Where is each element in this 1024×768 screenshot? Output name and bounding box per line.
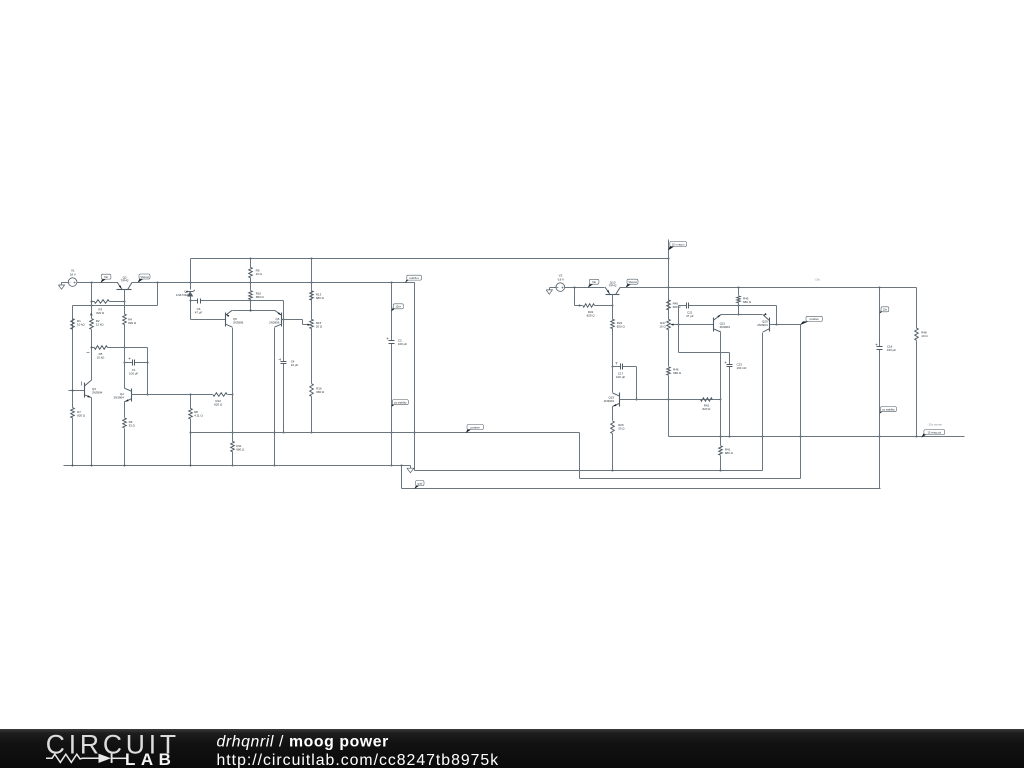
svg-text:out15v+: out15v+ [409,276,419,280]
wire right column down [414,283,416,471]
svg-text:http://circuitlab.com/cc8247tb: http://circuitlab.com/cc8247tb8975k [217,752,500,768]
ground (V1) [62,282,69,284]
wire Q20 base to positive [770,324,801,326]
capacitor C18 100uF [877,346,883,348]
node 15 v neg in flag [668,240,670,259]
wire column x668 to out row [668,400,670,437]
diff pair tail wire [233,310,275,312]
svg-text:15v: 15v [883,308,888,312]
zener diode D1 1N4733A column [190,259,192,290]
svg-text:680 Ω: 680 Ω [725,451,734,455]
resistor R10 680 [250,283,252,291]
column x283 (C4) [283,301,285,362]
svg-text:820 Ω: 820 Ω [587,314,596,318]
svg-text:820 Ω: 820 Ω [214,402,223,406]
svg-text:-15v sense: -15v sense [927,422,942,426]
node 15 vneg out flag [922,434,927,438]
svg-text:820 Ω: 820 Ω [96,311,105,315]
svg-text:33 Ω: 33 Ω [129,424,136,428]
svg-text:4.11 Ω: 4.11 Ω [194,414,203,418]
transistor Q4 2N3904 [124,363,126,389]
wire x574 corner to R22 row [574,288,576,306]
transistor Q20 2N3904 [769,318,771,332]
node 15v+ flag [392,307,397,311]
wire Q21 collector down [720,333,722,446]
svg-text:12 kΩ: 12 kΩ [96,322,105,326]
capacitor C23 100mF [727,364,733,366]
column C18 15v out [879,288,881,347]
wire Q5 collector down [232,328,234,442]
wire Q3 emitter down [91,398,93,466]
wire row y301 to corner [251,300,284,302]
capacitor C1 100uF [125,362,133,364]
node po stability flag (left) [392,403,397,407]
top rail y258 [191,258,669,260]
transistor Q6 2N3906 [281,313,283,327]
svg-text:680 Ω: 680 Ω [316,296,325,300]
svg-text:2N3904: 2N3904 [114,395,125,399]
wire Q6 base jog to R15 wiper [282,319,303,321]
node 15v flag (right) [880,310,885,314]
resistor R3 820 (row) [92,301,95,303]
svg-text:2N3904: 2N3904 [92,391,103,395]
resistor R46 680 [668,330,670,367]
wire R47 wiper from Q21 base [673,324,714,326]
svg-text:100 µF: 100 µF [398,342,407,346]
svg-text:10 µF: 10 µF [291,363,299,367]
svg-text:gnd: gnd [418,481,423,485]
resistor R8 4.11k column [190,395,192,409]
svg-text:820 Ω: 820 Ω [702,407,711,411]
svg-text:po stability: po stability [882,408,895,412]
wire Q2 base column x124 [124,290,126,315]
svg-text:2N3904: 2N3904 [757,323,768,327]
svg-text:100 µF: 100 µF [887,348,896,352]
svg-text:10 Ω: 10 Ω [921,334,928,338]
resistor R22 820 (row) [575,305,583,307]
node gnd flag [415,485,420,489]
svg-text:680 Ω: 680 Ω [236,447,245,451]
resistor R9 10 [250,259,252,268]
capacitor C2 100uF [389,340,395,342]
wire C17 right corner down [636,367,638,400]
svg-text:100 mF: 100 mF [737,366,747,370]
resistor R1 10k [72,306,74,319]
node po stability flag (right) [880,410,885,414]
resistor R24 820 [611,319,615,328]
svg-text:positive: positive [471,425,481,429]
svg-text:18 V: 18 V [70,272,76,276]
voltage source V2 -18V [556,283,565,292]
svg-text:Vboost: Vboost [628,280,637,284]
svg-text:drhqnril / moog power: drhqnril / moog power [217,734,389,751]
wire R10 to tail [250,301,252,311]
bottom rail left [64,465,411,467]
svg-text:15v+: 15v+ [395,305,401,309]
svg-text:TIP42: TIP42 [609,284,617,288]
svg-text:820 Ω: 820 Ω [77,413,86,417]
wire Q20 collector down [762,333,764,471]
svg-text:680 Ω: 680 Ω [256,295,265,299]
out column to line1 [415,470,763,472]
svg-text:47 µF: 47 µF [686,314,694,318]
svg-text:100 µF: 100 µF [616,375,625,379]
node positive flag (right) [800,322,807,325]
resistor R48 10 [916,288,918,329]
svg-text:LAB: LAB [125,750,176,768]
junction dots main rail [91,282,93,284]
svg-text:820 Ω: 820 Ω [617,325,626,329]
transistor Q10 TIP42 [606,294,620,296]
wire positive net to right [580,478,801,480]
resistor R5 10k (row) [92,347,95,349]
wire R45 to tail [738,306,740,315]
ground (V2) [550,287,557,289]
svg-text:-18 V: -18 V [557,277,564,281]
node Vboost flag (right) [626,284,631,288]
wire V1 to Q2 (Vin rail) [77,282,118,284]
wire Q6 collector down [274,328,276,466]
svg-text:positive: positive [810,317,820,321]
wire row y305 [73,305,158,307]
wire Q2 collector to out corner [133,282,415,284]
svg-text:33 Ω: 33 Ω [618,427,625,431]
resistor R13 680 [311,259,313,291]
svg-text:15 vneg out: 15 vneg out [928,430,942,434]
out row (right block) [669,436,965,438]
resistor R15 20 trimmer [311,283,313,301]
svg-text:2N3904: 2N3904 [720,325,731,329]
column C23 [729,353,731,365]
svg-text:Vin: Vin [104,275,109,279]
wire x147 down [147,348,149,395]
svg-text:47 µF: 47 µF [195,310,203,314]
transistor Q2 TIP42 [117,289,132,291]
svg-text:-15v: -15v [814,277,820,281]
svg-text:20 Ω: 20 Ω [316,325,323,329]
resistor R45 680 [738,288,740,296]
resistor R16 680 [311,329,313,384]
transistor Q3 2N3904 [69,390,85,392]
transistor Q19 2N3904 [612,367,614,393]
svg-text:2N3906: 2N3906 [269,321,280,325]
wire Q10 collector right [621,287,917,289]
capacitor C6 47uF (row y301) [191,300,198,302]
resistor R4 820 [123,314,127,325]
wire x91 below R2 [91,330,93,381]
svg-text:680 Ω: 680 Ω [316,390,325,394]
wire left column x72 [72,306,74,408]
wire positive net corner down [579,433,581,479]
capacitor C21 47uF (row y305.8) [679,305,687,307]
svg-text:2N3904: 2N3904 [604,399,615,403]
svg-text:Vboost: Vboost [140,275,149,279]
feedback row y432 [191,432,580,434]
svg-text:2N3906: 2N3906 [233,321,244,325]
node Vboost flag [138,279,143,283]
wire x678 down + jog [678,306,680,353]
resistor R40 680 [668,259,670,300]
svg-text:10 kΩ: 10 kΩ [97,356,106,360]
svg-text:100 µF: 100 µF [129,371,138,375]
wire x157 down to row305 [157,283,159,306]
wire Q10 base column [612,295,614,320]
svg-text:1N4733A: 1N4733A [176,293,188,297]
capacitor C4 10uF [281,361,287,363]
resistor R11 680 [231,441,235,452]
resistor R47 10 trimmer [667,319,671,330]
svg-text:680 Ω: 680 Ω [743,300,752,304]
resistor R26 33 [612,407,614,421]
node positive flag (left) [466,429,471,433]
resistor R42 820 (in base row) [701,398,713,402]
node Vin flag [101,279,106,282]
ground (left rail) [410,466,412,469]
node out15v+ flag [405,278,410,282]
svg-text:10 Ω: 10 Ω [256,272,263,276]
resistor R2 12k [90,313,92,316]
wire x91 rail to R3 row [91,283,93,319]
wire positive column down (right) [800,325,802,479]
wire Q19 base row [620,399,721,401]
svg-text:10 Ω: 10 Ω [659,324,666,328]
voltage source V1 18V [68,278,77,287]
svg-text:15 v neg in: 15 v neg in [672,242,685,246]
node Vin flag (right) [588,284,593,287]
resistor R41 680 [719,446,723,455]
column C2 out15v+ [391,283,393,341]
svg-text:po stability: po stability [394,401,407,405]
wire Q4 emitter + resistor R6 33 [124,402,126,418]
wire x776 from C21 row [776,306,778,325]
wire Q4 base row + resistor R12 820 [132,394,213,396]
capacitor C17 100uF (row) [613,366,621,368]
svg-text:680 Ω: 680 Ω [673,371,682,375]
resistor R7 820 [71,408,75,418]
svg-text:820 Ω: 820 Ω [128,321,137,325]
transistor Q21 2N3904 [713,318,715,332]
svg-text:TIP42: TIP42 [121,279,129,283]
svg-text:Vin: Vin [592,280,597,284]
svg-text:10 kΩ: 10 kΩ [77,322,86,326]
diff pair tail (right) [721,314,763,316]
transistor Q5 2N3906 [191,319,226,321]
wire V2 to Q10 [565,287,605,289]
gnd net wire down-right [401,466,403,489]
